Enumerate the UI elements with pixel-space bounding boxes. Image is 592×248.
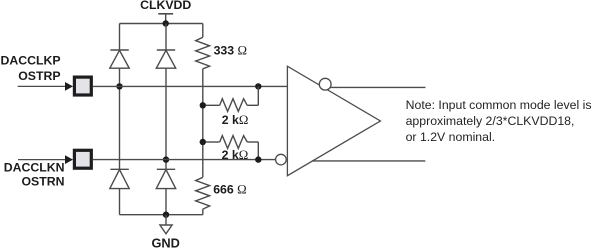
wire top rail right end to resistor 333 xyxy=(202,24,204,38)
wire D4 anode to bottom rail xyxy=(165,189,167,215)
power symbol CLKVDD (T-bar terminal) xyxy=(158,13,173,15)
svg-text:Note: Input common mode level: Note: Input common mode level is xyxy=(406,98,592,112)
junction DACCLKN rail / D2-D4 column xyxy=(163,156,169,162)
inverted output bubble on U1 top edge xyxy=(319,78,331,90)
resistor R4 666 ohm (bias node to GND) xyxy=(196,177,210,209)
svg-text:OSTRN: OSTRN xyxy=(21,174,64,188)
diode D2 (ESD clamp, DACCLKN to CLKVDD) xyxy=(156,50,175,68)
wire DACCLKP input lead xyxy=(18,85,66,87)
junction top rail / CLKVDD drop xyxy=(163,20,169,26)
ground net label GND xyxy=(151,235,179,248)
pad DACCLKP (bond pad square) xyxy=(74,77,91,95)
diode D3 (ESD clamp, GND to DACCLKP) xyxy=(110,169,129,188)
wire GND stem xyxy=(165,215,167,225)
wire top rail (CLKVDD rail) xyxy=(120,23,203,25)
power net CLKVDD label xyxy=(140,0,191,12)
svg-text:666 Ω: 666 Ω xyxy=(213,182,246,196)
resistor R1 333 ohm (CLKVDD to bias node) xyxy=(196,37,210,69)
junction DACCLKN rail / R3 bottom end xyxy=(255,156,261,162)
diode D1 (ESD clamp, DACCLKP to CLKVDD) xyxy=(110,50,129,68)
wire top rail to diode D1 cathode xyxy=(119,24,121,51)
junction DACCLKP rail / R2 top end xyxy=(255,83,261,89)
wire D2 anode down across P rail to N rail xyxy=(165,68,167,169)
wire CLKVDD terminal to top rail xyxy=(165,14,167,24)
junction bias node / R2 left end xyxy=(200,102,206,108)
svg-text:approximately 2/3*CLKVDD18,: approximately 2/3*CLKVDD18, xyxy=(406,114,575,128)
svg-text:CLKVDD: CLKVDD xyxy=(140,0,191,12)
value label 2 kohm (upper) xyxy=(222,113,249,127)
junction bias node / R3 left end xyxy=(200,139,206,145)
wire DACCLKN rail (pad to comparator inverting bubble) xyxy=(93,159,276,161)
wire D1 anode down through P rail to D3 cathode xyxy=(119,68,121,169)
note text annotation xyxy=(406,98,592,144)
inverting input bubble on U1 left edge xyxy=(276,154,287,165)
junction bottom rail / GND stem xyxy=(163,212,169,218)
junction DACCLKP rail / D1-D3 column xyxy=(116,83,122,89)
wire bottom rail (GND rail) xyxy=(120,214,203,216)
wire DACCLKP rail (pad to comparator) xyxy=(93,85,288,87)
wire R1 to bias node and down through rails to R4 xyxy=(202,69,204,178)
arrow into DACCLKP pad xyxy=(65,82,73,91)
value label 2 kohm (lower) xyxy=(222,148,249,162)
pad DACCLKN (bond pad square) xyxy=(74,150,91,168)
value label 666 ohm xyxy=(213,182,246,196)
pin label DACCLKN / OSTRN xyxy=(4,161,65,189)
value label 333 ohm xyxy=(214,44,247,58)
arrow into DACCLKN pad xyxy=(65,155,73,164)
diode D4 (ESD clamp, GND to DACCLKN) xyxy=(156,169,175,188)
wire D3 anode to bottom rail xyxy=(119,189,121,215)
svg-text:GND: GND xyxy=(151,235,179,248)
svg-text:2 kΩ: 2 kΩ xyxy=(222,113,249,127)
svg-text:or 1.2V nominal.: or 1.2V nominal. xyxy=(406,130,496,144)
pin label DACCLKP / OSTRP xyxy=(0,54,60,84)
svg-text:DACCLKP: DACCLKP xyxy=(0,54,60,68)
ground symbol GND xyxy=(160,225,172,234)
wire inverted output (top) xyxy=(330,86,425,88)
wire DACCLKN input lead xyxy=(18,159,66,161)
wire R4 to bottom rail xyxy=(202,209,204,215)
svg-text:333 Ω: 333 Ω xyxy=(214,44,247,58)
resistor R3 2 kohm (bias node to DACCLKN) xyxy=(206,136,258,160)
wire true output (bottom) xyxy=(312,160,425,162)
wire top rail to diode D2 cathode xyxy=(165,24,167,51)
svg-text:OSTRP: OSTRP xyxy=(18,69,60,83)
resistor R2 2 kohm (bias node to DACCLKP) xyxy=(206,86,258,111)
svg-text:DACCLKN: DACCLKN xyxy=(4,161,65,175)
op-amp U1 (clock receiver comparator triangle) xyxy=(287,66,380,176)
